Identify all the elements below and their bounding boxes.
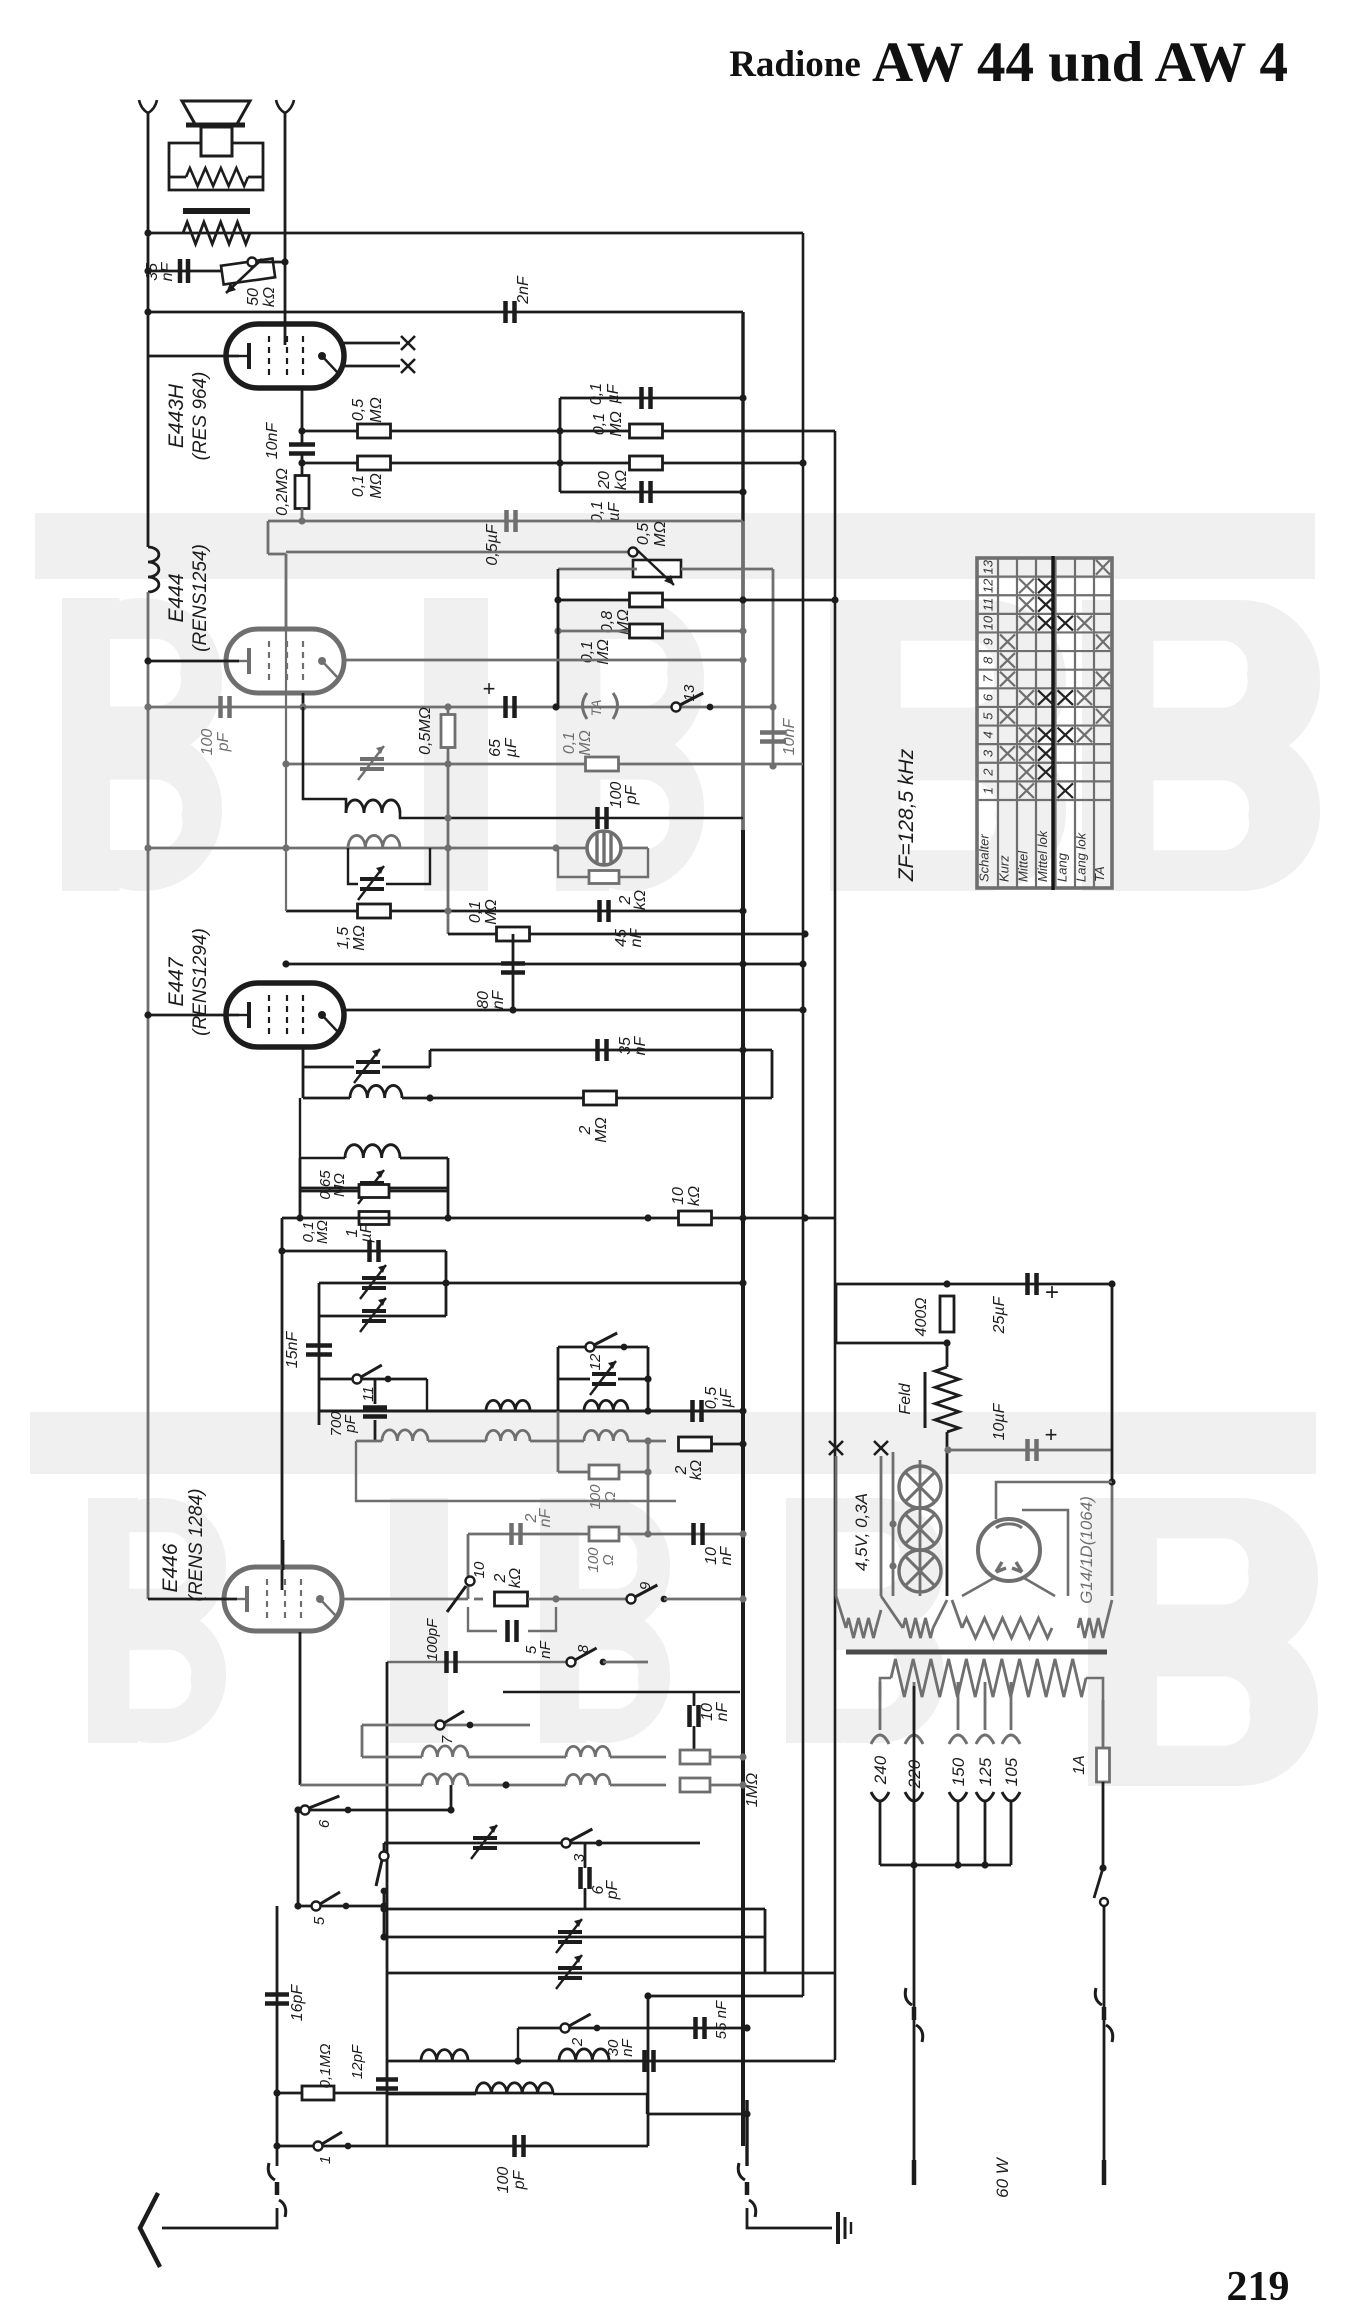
wire col x558 — [557, 569, 560, 706]
resistor 0,1M y934 — [497, 927, 530, 941]
resistor 100 ohm — [589, 1465, 619, 1479]
resistor 1M b — [680, 1778, 710, 1792]
junction — [644, 1530, 651, 1537]
coil band2b — [566, 1774, 610, 1785]
svg-text:0,1: 0,1 — [591, 413, 608, 435]
svg-text:E446: E446 — [159, 1543, 182, 1592]
tube E444 anode — [318, 657, 326, 665]
svg-text:nF: nF — [159, 261, 176, 281]
tube E446 grid2 — [284, 1579, 286, 1619]
wire row1757 b — [468, 1756, 566, 1759]
tube E444 cathode — [247, 648, 251, 674]
tube E444 grid2 — [286, 641, 288, 681]
wire rect right lead — [1024, 1578, 1055, 1596]
heater winding b — [903, 1618, 933, 1638]
svg-text:nF: nF — [537, 1640, 554, 1658]
variable capacitor t3 — [473, 1838, 497, 1848]
svg-text:20: 20 — [596, 471, 613, 490]
svg-text:µF: µF — [358, 1222, 375, 1243]
mains L tip — [912, 2160, 917, 2185]
wire row y631 — [558, 630, 743, 633]
variable capacitor t1 arrow — [556, 1955, 582, 1989]
coil band1b — [566, 1746, 610, 1757]
svg-text:MΩ: MΩ — [368, 397, 385, 423]
junction — [944, 1446, 951, 1453]
wire mains R — [1103, 1906, 1106, 2166]
junction — [910, 1861, 917, 1868]
svg-text:+: + — [1045, 1279, 1059, 1306]
svg-text:Feld: Feld — [897, 1382, 914, 1414]
junction — [294, 1806, 301, 1813]
wire vc12 row — [558, 1378, 590, 1381]
svg-text:kΩ: kΩ — [688, 1460, 705, 1480]
wire bus x803 — [802, 233, 805, 1996]
capacitor 10nF gray — [760, 733, 786, 742]
svg-text:9: 9 — [981, 638, 996, 645]
resistor 400 — [940, 1296, 954, 1332]
junction — [298, 459, 305, 466]
wire 5nF loop — [468, 1607, 497, 1631]
junction — [1108, 1280, 1115, 1287]
capacitor 10nF — [289, 445, 315, 454]
tap 125 plug — [976, 1792, 994, 1801]
wire E444 grid top row — [286, 551, 633, 554]
speaker zig lead R — [248, 176, 263, 179]
wire row y934 — [448, 933, 805, 936]
junction — [831, 596, 838, 603]
wire if vc row — [300, 1187, 358, 1190]
capacitor 30nF — [645, 2050, 654, 2072]
junction — [1108, 1478, 1115, 1485]
wire osc2 loop b — [386, 848, 430, 884]
wire row y1283 — [319, 1282, 743, 1285]
fuse 1A — [1097, 1748, 1110, 1782]
tube E444 — [226, 629, 344, 693]
wire feld top — [946, 1343, 949, 1367]
junction — [426, 1094, 433, 1101]
switch 13 — [672, 703, 681, 712]
svg-text:MΩ: MΩ — [608, 411, 625, 437]
variable capacitor IF arrow — [358, 1170, 384, 1204]
junction — [943, 1339, 950, 1346]
wire col x300 if — [299, 1158, 302, 1218]
wire tap 240 b — [879, 1802, 882, 1865]
svg-text:12: 12 — [587, 1353, 604, 1370]
wire det2 row — [303, 1066, 354, 1069]
wire E443H xlead2 — [344, 365, 400, 368]
wire 10nF box — [503, 1691, 740, 1693]
svg-text:11: 11 — [981, 598, 996, 612]
wire det loop — [558, 848, 589, 877]
pickup TA jack — [583, 693, 588, 719]
wire 10nF col b — [693, 1726, 696, 1757]
svg-text:nF: nF — [718, 1545, 735, 1565]
tube E443H grid3 — [302, 336, 304, 376]
wire bus B+ bottom — [745, 2100, 748, 2166]
capacitor 16pF — [265, 1995, 289, 2004]
tube E447 anode — [318, 1011, 326, 1019]
switch 4 — [380, 1852, 389, 1861]
tube E446 grid1 — [266, 1579, 268, 1619]
wire gray row y554 — [268, 553, 286, 556]
wire bus right power — [1111, 1284, 1114, 1482]
resistor 0,65M — [359, 1185, 389, 1198]
junction — [552, 1595, 559, 1602]
wire row y1218 — [282, 1217, 835, 1220]
svg-text:2: 2 — [577, 1125, 594, 1135]
junction — [739, 1440, 746, 1447]
wire 2k row b — [528, 1598, 627, 1601]
wire right grid bus — [284, 113, 287, 345]
junction — [444, 703, 451, 710]
wire sw7 row — [362, 1724, 530, 1727]
wire col x513 — [512, 934, 515, 1010]
wire col x384 sw4b — [383, 1891, 386, 1937]
wire col x648 low — [647, 1996, 650, 2146]
wire bus right power gray — [1111, 1482, 1114, 1596]
svg-text:1MΩ: 1MΩ — [744, 1773, 761, 1807]
junction — [144, 308, 151, 315]
tube E447 cathode — [247, 1002, 251, 1028]
resistor 0,1M — [358, 456, 391, 470]
svg-text:E443H: E443H — [165, 383, 188, 448]
wire fuse up — [1102, 1700, 1105, 1748]
resistor 1M a — [680, 1750, 710, 1764]
wire col x282 — [281, 1218, 284, 1590]
svg-text:13: 13 — [981, 559, 996, 574]
svg-text:nF: nF — [632, 1035, 649, 1055]
heater winding a — [846, 1618, 876, 1638]
wire tap 240 — [879, 1682, 882, 1730]
svg-text:10: 10 — [670, 1187, 687, 1205]
svg-text:15nF: 15nF — [284, 1331, 301, 1369]
svg-text:Ω: Ω — [600, 1554, 617, 1565]
wire osc2 loop — [348, 848, 358, 884]
resistor 2k b — [679, 1437, 712, 1451]
svg-text:6: 6 — [316, 1819, 333, 1828]
watermark BIB row 1 and 2 — [35, 513, 1315, 579]
svg-text:G14/1D(1064): G14/1D(1064) — [1077, 1496, 1096, 1604]
svg-text:Schalter: Schalter — [977, 834, 992, 882]
svg-text:Kurz: Kurz — [997, 855, 1012, 882]
svg-text:kΩ: kΩ — [686, 1186, 703, 1206]
variable capacitor osc1 — [360, 759, 384, 769]
variable capacitor det2 — [356, 1062, 380, 1072]
svg-text:+: + — [483, 676, 496, 701]
speaker zig lead L — [169, 176, 186, 179]
wire row y431 — [302, 430, 835, 433]
wire primary right — [1086, 1678, 1103, 1742]
svg-text:nF: nF — [490, 989, 507, 1009]
svg-text:55 nF: 55 nF — [713, 2000, 730, 2039]
wire pot drop x773 — [772, 569, 775, 706]
wire power top — [836, 1283, 1112, 1286]
resistor 0,1M y631 — [630, 624, 663, 638]
wire tap 105 — [1010, 1682, 1013, 1730]
wire pot left — [558, 568, 637, 571]
tap 105 socket — [1002, 1735, 1020, 1744]
wire col x558 gray — [557, 1411, 560, 1472]
junction — [769, 762, 776, 769]
wire row y1379 — [319, 1378, 427, 1381]
wire det2 col — [429, 1050, 432, 1067]
wire row1757 c — [610, 1756, 666, 1759]
wire row y660 right — [344, 659, 743, 662]
wire tap 125 — [984, 1682, 987, 1730]
antenna arrow — [140, 2193, 160, 2267]
variable capacitor t1 — [558, 1968, 582, 1978]
wire bus x835 — [834, 431, 837, 2060]
speaker magnet bar — [183, 208, 250, 214]
wire hw lead b — [881, 1596, 903, 1628]
tube E443H grid1 — [268, 336, 270, 376]
wire row y463 — [302, 462, 803, 465]
coil osc primary — [346, 800, 400, 813]
svg-text:(RENS1254): (RENS1254) — [190, 544, 211, 652]
junction — [281, 258, 288, 265]
svg-text:ZF=128,5 kHz: ZF=128,5 kHz — [895, 748, 918, 882]
junction — [552, 844, 559, 851]
wire row y1843 — [384, 1842, 700, 1845]
variable capacitor t2 — [558, 1932, 582, 1942]
dial lamp 2 — [899, 1508, 941, 1550]
junction — [144, 703, 151, 710]
switch 1 — [314, 2142, 323, 2151]
svg-text:0,2MΩ: 0,2MΩ — [274, 468, 291, 516]
switch 5 — [312, 1902, 321, 1911]
junction — [799, 960, 806, 967]
resistor 0,5M — [358, 424, 391, 438]
svg-text:Mittel lok: Mittel lok — [1035, 829, 1050, 882]
wire E443H xlead1 — [344, 342, 400, 345]
svg-text:5: 5 — [311, 1916, 328, 1925]
wire E444 grid up — [285, 554, 288, 629]
svg-text:pF: pF — [342, 1414, 359, 1433]
svg-text:7: 7 — [439, 1735, 456, 1744]
wire col x448 — [447, 707, 450, 934]
wire sw6 row — [298, 1809, 451, 1812]
wire hw lead c — [952, 1600, 962, 1628]
tube E443H — [226, 324, 344, 388]
junction — [739, 1781, 746, 1788]
wire row y600 — [558, 599, 835, 602]
junction — [282, 844, 289, 851]
svg-text:Radione: Radione — [729, 44, 861, 85]
junction — [943, 1280, 950, 1287]
svg-text:Ω: Ω — [602, 1491, 619, 1502]
coil band2a — [422, 1774, 468, 1785]
capacitor 100pF b — [447, 1651, 456, 1673]
svg-text:8: 8 — [981, 656, 996, 664]
wire row y1441 b — [428, 1440, 486, 1443]
terminal X1 — [401, 336, 415, 350]
wire 6pF col — [584, 1843, 587, 1868]
potentiometer 0,5M — [629, 548, 638, 557]
svg-text:2: 2 — [569, 2037, 586, 2047]
wire line y312 — [148, 311, 743, 314]
variable capacitor t3 arrow — [471, 1825, 497, 1859]
tube E443H anode — [318, 352, 326, 360]
svg-text:(RES 964): (RES 964) — [190, 372, 211, 461]
svg-text:10nF: 10nF — [264, 422, 281, 460]
field coil Feld — [935, 1367, 959, 1432]
svg-text:+: + — [1045, 1422, 1058, 1447]
junction — [739, 488, 746, 495]
switch 10 — [466, 1577, 475, 1586]
svg-text:Mittel: Mittel — [1016, 850, 1031, 882]
tap 220 plug — [905, 1792, 923, 1801]
dial lamp 3 — [899, 1550, 941, 1592]
svg-text:10nF: 10nF — [781, 718, 798, 756]
tube E447 — [226, 983, 344, 1047]
junction — [298, 427, 305, 434]
wire col x375 — [374, 1379, 377, 1404]
wire rect left lead — [962, 1578, 994, 1596]
tube E447 grid1 — [268, 995, 270, 1035]
svg-text:MΩ: MΩ — [351, 925, 368, 951]
coil ant1 — [486, 1400, 530, 1411]
rectifier G14/1D — [978, 1519, 1040, 1581]
capacitor 0,1uF top — [642, 387, 651, 409]
junction — [1099, 1864, 1106, 1871]
wire bus B+ main gray — [741, 521, 745, 830]
detector cell — [587, 831, 621, 865]
junction — [739, 656, 746, 663]
svg-text:MΩ: MΩ — [483, 899, 500, 925]
svg-text:7: 7 — [981, 675, 996, 683]
wire col x286 mid — [285, 554, 287, 911]
terminal X3 — [829, 1441, 843, 1455]
junction — [739, 907, 746, 914]
junction — [514, 2057, 521, 2064]
wire bigcoil loop — [553, 2094, 647, 2114]
svg-text:220: 220 — [905, 1759, 924, 1789]
wire sw5 row — [298, 1905, 384, 1908]
tube E446 cathode — [245, 1586, 249, 1612]
svg-text:0,5: 0,5 — [350, 399, 367, 421]
junction — [144, 844, 151, 851]
wire anode cont — [301, 454, 304, 478]
svg-text:13: 13 — [681, 684, 698, 701]
capacitor 0,5uF — [507, 510, 516, 532]
wire bus B+ main — [741, 312, 744, 521]
capacitor 12pF — [376, 2080, 398, 2089]
svg-text:2nF: 2nF — [515, 275, 532, 305]
svg-text:60 W: 60 W — [993, 2156, 1012, 2198]
junction — [739, 1279, 746, 1286]
tap 150 plug — [949, 1792, 967, 1801]
svg-text:50: 50 — [245, 288, 262, 306]
variable capacitor avc1 arrow — [360, 1265, 386, 1299]
svg-text:0,1: 0,1 — [561, 732, 578, 754]
junction — [739, 1530, 746, 1537]
svg-text:MΩ: MΩ — [593, 1117, 610, 1143]
tube E446 grid3 — [300, 1579, 302, 1619]
resistor det 2k — [589, 871, 619, 884]
wire row y521 gray — [268, 520, 743, 523]
switch 6 — [301, 1806, 310, 1815]
wire xlead2 — [880, 1456, 883, 1596]
wire hw lead a — [836, 1596, 846, 1628]
wire row y1534 — [468, 1533, 743, 1536]
junction — [801, 930, 808, 937]
wire gray drop — [356, 1441, 676, 1501]
wire r065 row b — [389, 1190, 448, 1193]
resistor 0,1M gray — [586, 757, 619, 771]
wire antenna col — [276, 1906, 279, 2166]
wire col x468 — [467, 1534, 470, 1599]
switch 7 — [436, 1721, 445, 1730]
junction — [442, 1279, 449, 1286]
svg-text:(RENS 1284): (RENS 1284) — [186, 1489, 207, 1602]
capacitor 100pF — [221, 696, 230, 718]
coil L-field 000 — [148, 547, 159, 592]
capacitor 15nF — [306, 1346, 332, 1355]
resistor 100 ohm 2 — [589, 1527, 619, 1541]
connector antenna — [268, 2163, 275, 2180]
speaker neck — [201, 127, 232, 156]
wire sw10 row — [474, 1598, 483, 1601]
tube E443H cathode — [247, 343, 251, 369]
wire col x303 det — [302, 1067, 305, 1098]
wire col x560 — [559, 398, 562, 492]
resistor 10k — [679, 1211, 712, 1225]
junction — [447, 1806, 454, 1813]
junction — [644, 1437, 651, 1444]
wire col x319 — [318, 1283, 321, 1425]
wire bus B+ main low — [741, 830, 745, 2146]
terminal X4 — [874, 1441, 888, 1455]
capacitor 2nF b — [512, 1523, 521, 1545]
svg-text:10: 10 — [471, 1561, 488, 1578]
wire col x375 b — [374, 1420, 377, 1440]
svg-text:10µF: 10µF — [991, 1402, 1008, 1440]
wire 10uF row — [948, 1449, 1112, 1452]
wire E447 anode down — [302, 1047, 305, 1067]
variable capacitor osc1 arrow — [358, 746, 384, 780]
wire col x384 sw4 — [383, 1843, 386, 1852]
wire col x446 b — [445, 1283, 448, 1316]
junction — [769, 703, 776, 710]
terminal X2 — [401, 359, 415, 373]
wire hw lead b2 — [933, 1600, 947, 1628]
svg-text:kΩ: kΩ — [261, 287, 278, 307]
tap 240 plug — [871, 1792, 889, 1801]
junction — [739, 1214, 746, 1221]
wire E447 cathode — [148, 1014, 239, 1017]
wire row1757 a — [362, 1756, 422, 1759]
capacitor 35nF-2 — [598, 1039, 607, 1061]
junction — [799, 459, 806, 466]
wire 6pF col b — [584, 1888, 587, 1909]
heater winding c — [962, 1618, 1052, 1638]
wire col x448 if — [447, 1158, 450, 1218]
output transformer winding — [183, 222, 250, 244]
svg-text:105: 105 — [1002, 1757, 1021, 1786]
capacitor 35nF — [180, 259, 188, 283]
junction — [444, 814, 451, 821]
coil osc secondary — [348, 835, 400, 848]
junction — [739, 1753, 746, 1760]
junction — [299, 703, 306, 710]
capacitor 100pF-2 — [598, 807, 607, 829]
svg-text:µF: µF — [718, 1387, 735, 1408]
svg-text:(RENS1294): (RENS1294) — [190, 928, 211, 1036]
variable capacitor det2 arrow — [354, 1049, 380, 1083]
junction — [954, 1861, 961, 1868]
coil det 120 — [350, 1085, 402, 1098]
svg-text:3: 3 — [981, 749, 996, 757]
